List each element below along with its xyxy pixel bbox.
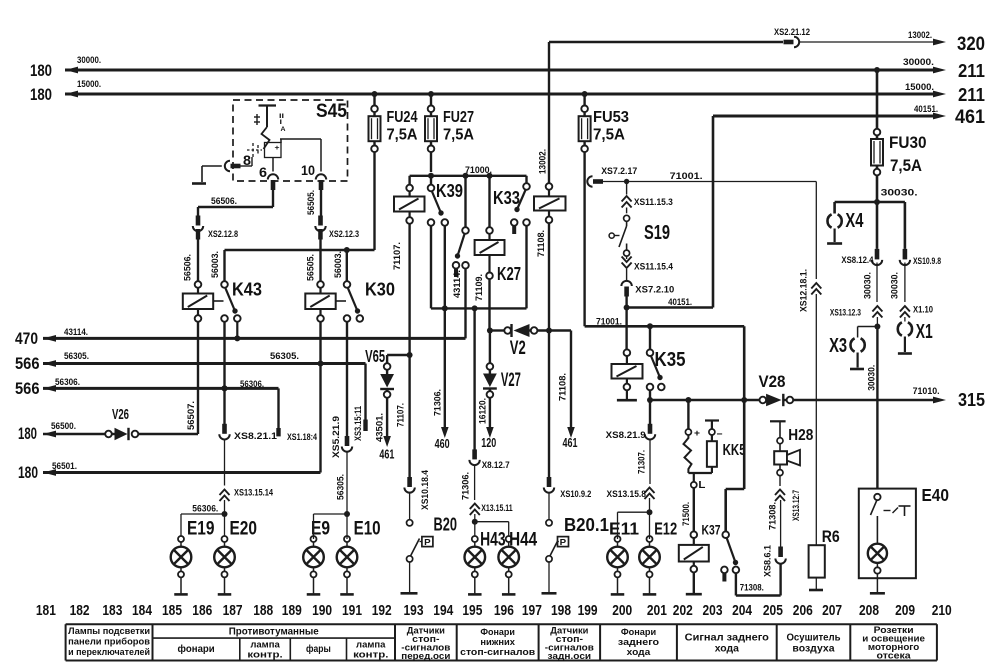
- svg-text:XS3.15:11: XS3.15:11: [353, 406, 363, 441]
- svg-text:V27: V27: [501, 370, 521, 391]
- svg-text:181: 181: [36, 603, 56, 619]
- svg-text:15000.: 15000.: [77, 79, 101, 89]
- svg-text:XS10.18.4: XS10.18.4: [420, 470, 430, 510]
- svg-text:Лампы подсветки: Лампы подсветки: [68, 626, 150, 636]
- svg-text:184: 184: [132, 603, 152, 619]
- svg-text:56003.: 56003.: [210, 251, 220, 278]
- svg-text:панели приборов: панели приборов: [68, 636, 150, 646]
- svg-text:6: 6: [259, 164, 267, 180]
- svg-text:V28: V28: [759, 373, 786, 391]
- svg-text:XS12.18.1.: XS12.18.1.: [799, 269, 809, 312]
- svg-text:XS13.15.8: XS13.15.8: [607, 489, 647, 499]
- svg-text:H44: H44: [509, 530, 537, 551]
- svg-text:XS7.2.10: XS7.2.10: [635, 285, 674, 295]
- svg-text:XS2.21.12: XS2.21.12: [774, 27, 810, 37]
- svg-text:566: 566: [15, 380, 40, 398]
- svg-text:воздуха: воздуха: [792, 644, 835, 655]
- svg-text:203: 203: [703, 603, 723, 619]
- svg-text:30030.: 30030.: [881, 188, 918, 199]
- svg-text:56305.: 56305.: [270, 351, 299, 361]
- svg-text:193: 193: [404, 603, 424, 619]
- svg-text:43114.: 43114.: [452, 270, 462, 298]
- svg-text:7,5A: 7,5A: [443, 127, 474, 144]
- svg-text:71308.: 71308.: [768, 502, 778, 530]
- svg-text:P: P: [560, 537, 567, 547]
- svg-text:56500.: 56500.: [51, 421, 76, 431]
- svg-text:56305.: 56305.: [335, 474, 345, 500]
- svg-text:185: 185: [162, 603, 182, 619]
- svg-text:X3: X3: [829, 335, 847, 357]
- svg-text:40151.: 40151.: [914, 104, 938, 114]
- svg-text:209: 209: [895, 603, 915, 619]
- svg-text:контр.: контр.: [353, 649, 388, 660]
- svg-text:204: 204: [732, 603, 752, 619]
- svg-text:A: A: [281, 126, 286, 133]
- svg-text:461: 461: [955, 107, 985, 128]
- svg-text:180: 180: [18, 464, 38, 482]
- svg-text:XS1.18:4: XS1.18:4: [287, 432, 317, 442]
- svg-text:194: 194: [433, 603, 453, 619]
- svg-text:R6: R6: [822, 527, 840, 546]
- svg-text:210: 210: [932, 603, 952, 619]
- svg-text:320: 320: [957, 34, 985, 55]
- svg-text:71108.: 71108.: [558, 373, 568, 401]
- svg-text:нижних: нижних: [480, 637, 515, 647]
- svg-text:195: 195: [462, 603, 482, 619]
- svg-text:197: 197: [522, 603, 542, 619]
- svg-text:Противотуманные: Противотуманные: [229, 627, 319, 638]
- svg-text:56305.: 56305.: [64, 351, 89, 361]
- svg-text:186: 186: [192, 603, 212, 619]
- svg-text:XS7.2.17: XS7.2.17: [601, 166, 637, 176]
- svg-text:43501.: 43501.: [375, 413, 385, 442]
- svg-text:XS5.21.9: XS5.21.9: [331, 416, 341, 458]
- svg-text:FU30: FU30: [889, 133, 927, 152]
- svg-text:X8.12.7: X8.12.7: [482, 460, 510, 470]
- svg-text:56003.: 56003.: [333, 251, 343, 278]
- svg-text:211: 211: [958, 85, 985, 105]
- svg-text:30030.: 30030.: [890, 272, 900, 299]
- svg-text:56501.: 56501.: [52, 461, 77, 471]
- svg-text:P: P: [424, 537, 431, 547]
- svg-text:+: +: [694, 428, 700, 439]
- svg-text:188: 188: [253, 603, 273, 619]
- svg-text:470: 470: [15, 330, 38, 348]
- svg-text:I: I: [280, 119, 283, 126]
- svg-text:V26: V26: [112, 407, 129, 423]
- svg-text:56306.: 56306.: [192, 504, 218, 514]
- svg-text:XS13.15.14: XS13.15.14: [234, 488, 273, 498]
- svg-text:202: 202: [673, 603, 693, 619]
- svg-text:187: 187: [223, 603, 243, 619]
- svg-text:182: 182: [70, 603, 90, 619]
- svg-text:E20: E20: [230, 518, 258, 540]
- svg-text:196: 196: [494, 603, 514, 619]
- svg-text:Фонари: Фонари: [480, 627, 515, 637]
- svg-text:71307.: 71307.: [637, 450, 647, 474]
- svg-text:71001.: 71001.: [670, 171, 703, 182]
- svg-text:перед.оси: перед.оси: [401, 651, 450, 661]
- svg-text:180: 180: [30, 86, 52, 104]
- svg-text:56506.: 56506.: [211, 196, 237, 206]
- svg-text:E10: E10: [354, 518, 381, 540]
- svg-text:XS11.15.4: XS11.15.4: [634, 262, 673, 272]
- svg-text:56505.: 56505.: [306, 254, 316, 281]
- svg-text:E40: E40: [922, 485, 950, 505]
- svg-text:V65: V65: [365, 346, 385, 366]
- svg-text:205: 205: [763, 603, 783, 619]
- svg-text:16120.: 16120.: [478, 398, 488, 424]
- svg-text:XS11.15.3: XS11.15.3: [634, 197, 673, 207]
- svg-text:XS13.12.3: XS13.12.3: [830, 308, 861, 318]
- svg-text:задн.оси: задн.оси: [548, 651, 592, 661]
- svg-text:KK5: KK5: [723, 442, 746, 459]
- svg-text:хода: хода: [627, 647, 651, 658]
- svg-text:211: 211: [958, 61, 985, 81]
- svg-text:X13.15.11: X13.15.11: [481, 503, 513, 513]
- svg-text:30000.: 30000.: [903, 57, 934, 67]
- svg-text:L: L: [698, 479, 706, 491]
- svg-text:7,5A: 7,5A: [593, 127, 625, 144]
- svg-text:K37: K37: [702, 522, 721, 538]
- svg-text:15000.: 15000.: [905, 82, 934, 92]
- svg-text:180: 180: [30, 62, 52, 80]
- svg-text:отсека: отсека: [877, 651, 912, 661]
- svg-text:192: 192: [372, 603, 392, 619]
- svg-text:191: 191: [342, 603, 362, 619]
- svg-text:56306.: 56306.: [240, 379, 264, 389]
- svg-text:30030.: 30030.: [867, 365, 877, 391]
- svg-text:71010.: 71010.: [913, 386, 940, 396]
- svg-text:71109.: 71109.: [474, 274, 484, 301]
- svg-text:FU27: FU27: [443, 109, 474, 126]
- svg-text:XS13.12:7: XS13.12:7: [791, 490, 801, 521]
- svg-text:198: 198: [551, 603, 571, 619]
- svg-text:315: 315: [958, 390, 985, 410]
- svg-text:E19: E19: [187, 518, 215, 540]
- svg-text:Сигнал заднего: Сигнал заднего: [685, 633, 769, 644]
- svg-text:X1: X1: [916, 321, 933, 343]
- svg-text:206: 206: [793, 603, 813, 619]
- svg-text:XS10.9.8: XS10.9.8: [913, 256, 941, 266]
- svg-text:7,5A: 7,5A: [890, 156, 922, 175]
- svg-text:XS10.9.2: XS10.9.2: [560, 489, 591, 499]
- svg-text:E11: E11: [609, 519, 639, 539]
- svg-text:FU53: FU53: [593, 109, 629, 126]
- svg-text:71107.: 71107.: [392, 242, 402, 270]
- svg-text:43114.: 43114.: [64, 327, 88, 337]
- svg-text:71308.: 71308.: [740, 583, 764, 593]
- svg-text:7,5A: 7,5A: [387, 127, 418, 144]
- svg-text:208: 208: [859, 603, 879, 619]
- svg-text:контр.: контр.: [247, 649, 282, 660]
- svg-text:B20.1: B20.1: [564, 515, 609, 535]
- svg-text:180: 180: [18, 425, 37, 443]
- svg-text:XS8.21.9: XS8.21.9: [606, 430, 646, 440]
- svg-text:B20: B20: [434, 515, 458, 535]
- svg-text:71306.: 71306.: [461, 472, 471, 500]
- svg-text:207: 207: [822, 603, 842, 619]
- svg-text:S45: S45: [316, 101, 347, 122]
- svg-text:71108.: 71108.: [536, 230, 546, 257]
- svg-text:10: 10: [301, 162, 315, 178]
- svg-text:стоп-сигналов: стоп-сигналов: [460, 647, 535, 657]
- svg-text:−: −: [717, 429, 723, 440]
- svg-text:183: 183: [102, 603, 122, 619]
- svg-text:56506.: 56506.: [183, 254, 193, 281]
- svg-text:S19: S19: [644, 222, 670, 244]
- svg-text:13002.: 13002.: [538, 149, 548, 174]
- svg-text:фары: фары: [306, 643, 331, 655]
- svg-text:K35: K35: [655, 349, 686, 371]
- svg-text:H28: H28: [788, 427, 813, 444]
- svg-text:K30: K30: [365, 279, 395, 300]
- svg-text:E12: E12: [654, 519, 677, 539]
- svg-text:200: 200: [612, 603, 632, 619]
- svg-text:хода: хода: [715, 644, 740, 655]
- svg-text:199: 199: [578, 603, 598, 619]
- svg-text:189: 189: [282, 603, 302, 619]
- svg-text:фонари: фонари: [178, 643, 215, 655]
- svg-text:XS2.12.8: XS2.12.8: [208, 229, 238, 239]
- svg-text:71500.: 71500.: [681, 502, 691, 526]
- svg-text:40151.: 40151.: [668, 297, 692, 308]
- svg-text:566: 566: [15, 355, 40, 373]
- svg-text:201: 201: [647, 603, 667, 619]
- svg-text:+: +: [275, 143, 281, 152]
- svg-text:30000.: 30000.: [77, 55, 101, 65]
- svg-text:71306.: 71306.: [433, 389, 443, 416]
- svg-text:Осушитель: Осушитель: [786, 633, 840, 644]
- svg-text:56306.: 56306.: [55, 377, 80, 387]
- svg-text:H43: H43: [480, 530, 506, 551]
- svg-text:K43: K43: [232, 279, 262, 300]
- svg-text:461: 461: [563, 435, 578, 450]
- svg-text:K33: K33: [493, 187, 520, 208]
- svg-text:X4: X4: [845, 210, 864, 232]
- svg-text:X1.10: X1.10: [913, 304, 933, 314]
- svg-text:461: 461: [379, 447, 394, 462]
- svg-text:XS8.6.1: XS8.6.1: [763, 545, 773, 577]
- svg-text:13002.: 13002.: [908, 30, 932, 40]
- svg-text:V2: V2: [510, 338, 526, 359]
- svg-text:56505.: 56505.: [306, 190, 316, 215]
- svg-text:190: 190: [312, 603, 332, 619]
- svg-text:120: 120: [481, 435, 496, 450]
- svg-text:71107.: 71107.: [396, 403, 406, 427]
- svg-text:FU24: FU24: [387, 109, 418, 126]
- svg-text:и переключателей: и переключателей: [68, 647, 150, 657]
- svg-text:XS2.12.3: XS2.12.3: [329, 229, 359, 239]
- svg-text:K27: K27: [497, 263, 521, 284]
- svg-text:XS8.12.4: XS8.12.4: [841, 255, 873, 265]
- svg-text:XS8.21.1: XS8.21.1: [234, 431, 277, 441]
- svg-text:460: 460: [435, 436, 450, 451]
- svg-text:K39: K39: [436, 180, 463, 201]
- svg-text:30030.: 30030.: [863, 272, 873, 299]
- svg-text:56507.: 56507.: [186, 401, 196, 430]
